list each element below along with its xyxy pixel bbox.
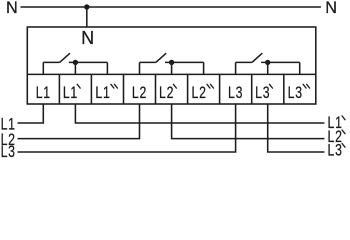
terminal divider 5 — [187, 74, 189, 104]
contact K3: wire stub down to L3'' — [299, 62, 301, 75]
contact K1: junction dot at L1' — [73, 60, 78, 65]
prime tick of terminal L1' — [77, 84, 80, 88]
wire N bus (top horizontal) — [21, 6, 321, 8]
contact K3: junction dot at L3' — [265, 60, 270, 65]
terminal divider 4 — [155, 74, 157, 104]
contact K3: wire stub L3 terminal up — [235, 62, 237, 75]
wire L1' terminal to line L1' — [75, 104, 324, 124]
prime ticks of terminal L1'' — [111, 84, 118, 88]
svg-text:L1: L1 — [36, 84, 51, 102]
svg-text:L3: L3 — [1, 143, 16, 161]
terminal divider 3 — [123, 74, 125, 104]
prime tick of terminal L2' — [173, 84, 176, 88]
contact K2: switch blade (open) — [156, 53, 166, 62]
wire L3' terminal to line L3' — [268, 104, 325, 153]
svg-text:L1: L1 — [63, 84, 78, 102]
prime tick of terminal L3' — [270, 84, 273, 88]
prime tick of line label L1' (right) — [342, 116, 345, 120]
junction N bus to drop — [84, 4, 89, 9]
contact K3: wire stub down to L3' — [267, 62, 269, 75]
svg-text:N: N — [81, 28, 94, 48]
svg-text:L2: L2 — [192, 84, 207, 102]
contact K1: wire stub down to L1'' — [106, 62, 108, 75]
svg-text:L3: L3 — [328, 142, 343, 160]
contact K2: right lead to L2'' — [165, 61, 204, 63]
prime ticks of terminal L2'' — [207, 84, 214, 88]
contact K1: switch blade (open) — [60, 53, 70, 62]
svg-text:L3: L3 — [228, 84, 243, 102]
contact K3: switch blade (open) — [252, 53, 262, 62]
prime ticks of terminal L3'' — [303, 84, 310, 88]
svg-text:L2: L2 — [159, 84, 174, 102]
contact K1: wire stub down to L1' — [74, 62, 76, 75]
wire L1 terminal to line L1 — [18, 104, 44, 124]
terminal divider 1 — [58, 74, 60, 104]
device box outline — [27, 27, 316, 104]
terminal divider 6 — [219, 74, 221, 104]
svg-text:L3: L3 — [288, 84, 303, 102]
contact K1: right lead to L1'' — [69, 61, 108, 63]
contact K2: left lead — [140, 61, 156, 63]
contact K2: junction dot at L2' — [169, 60, 174, 65]
terminal strip top line — [27, 73, 316, 75]
contact K2: wire stub down to L2' — [171, 62, 173, 75]
svg-text:N: N — [6, 0, 18, 17]
terminal divider 2 — [90, 74, 92, 104]
wire L3 terminal to line L3 — [18, 104, 236, 153]
wire L2 terminal to line L2 — [18, 104, 140, 139]
wire N drop into device — [86, 7, 88, 27]
prime tick of line label L2' (right) — [342, 130, 345, 134]
prime tick of line label L3' (right) — [342, 143, 345, 147]
terminal divider 7 — [251, 74, 253, 104]
contact K2: wire stub down to L2'' — [203, 62, 205, 75]
wire L2' terminal to line L2' — [172, 104, 325, 139]
contact K2: wire stub L2 terminal up — [139, 62, 141, 75]
svg-text:N: N — [325, 0, 337, 17]
contact K1: left lead — [43, 61, 59, 63]
svg-text:L3: L3 — [255, 84, 270, 102]
svg-text:L2: L2 — [132, 84, 147, 102]
contact K3: left lead — [236, 61, 252, 63]
terminal divider 8 — [283, 74, 285, 104]
svg-text:L1: L1 — [95, 84, 110, 102]
contact K3: right lead to L3'' — [261, 61, 300, 63]
contact K1: wire stub L1 terminal up — [42, 62, 44, 75]
